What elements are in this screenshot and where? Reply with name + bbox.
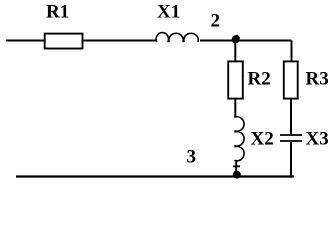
svg-text:R3: R3: [306, 69, 329, 90]
wire R1 to X1: [83, 40, 156, 42]
wire R3 down to X3: [290, 99, 292, 135]
svg-text:X2: X2: [251, 128, 274, 149]
wire corner down to R3: [291, 41, 293, 62]
inductor X2: [234, 117, 244, 161]
svg-text:X1: X1: [157, 2, 180, 23]
wire top-left lead: [6, 40, 44, 42]
svg-text:X3: X3: [306, 128, 329, 149]
resistor R3: [284, 61, 298, 98]
svg-text:2: 2: [211, 11, 221, 32]
wire X2 tail to node 3: [233, 161, 240, 173]
resistor R1: [45, 34, 83, 49]
resistor R2: [228, 61, 243, 98]
wire bottom rail: [16, 175, 294, 177]
svg-text:R2: R2: [248, 69, 271, 90]
node 2 junction dot: [232, 35, 240, 43]
capacitor X3 bottom plate: [280, 140, 302, 142]
svg-text:3: 3: [187, 147, 197, 168]
capacitor X3 top plate: [280, 134, 302, 136]
wire X1 to corner: [200, 40, 292, 42]
svg-text:R1: R1: [46, 2, 69, 23]
wire node 2 down to R2: [234, 41, 236, 62]
wire R2 down to X2: [234, 99, 236, 118]
node 3 junction dot: [233, 171, 241, 179]
wire X3 down to bottom: [290, 142, 292, 177]
inductor X1: [156, 33, 198, 43]
